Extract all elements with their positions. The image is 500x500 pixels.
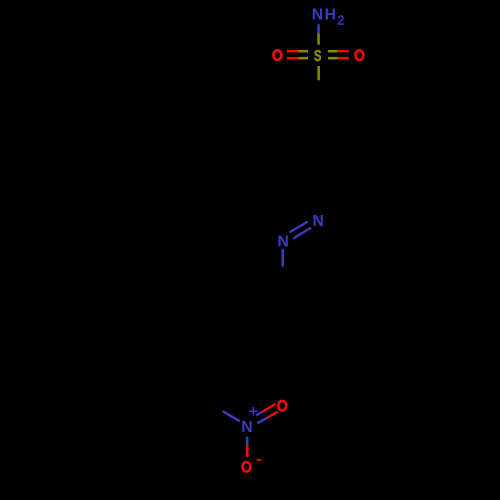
svg-text:S: S [314, 46, 322, 64]
svg-text:2: 2 [337, 14, 344, 28]
svg-text:H: H [325, 6, 336, 23]
svg-text:N: N [241, 419, 252, 436]
svg-text:N: N [278, 233, 289, 250]
svg-text:N: N [312, 6, 323, 23]
svg-text:N: N [312, 213, 323, 230]
